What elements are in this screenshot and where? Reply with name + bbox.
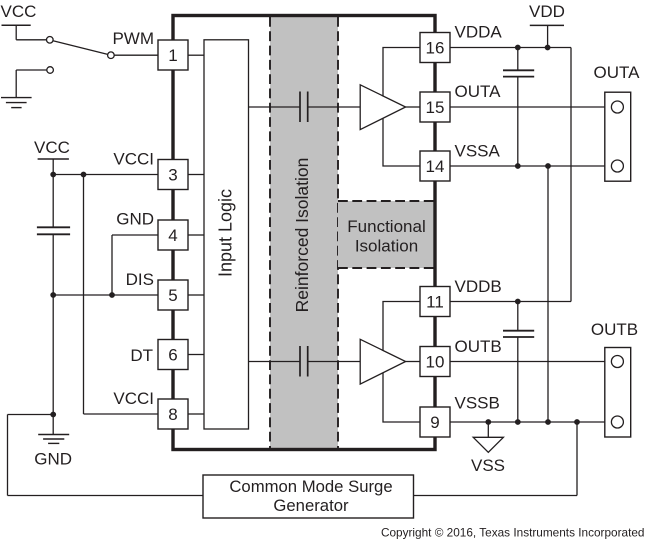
junction VCCI branch — [81, 172, 87, 178]
wire VSSA to VSSB vertical tie — [547, 166, 549, 422]
wire VSSB to surge generator — [414, 422, 578, 496]
switch S1 upper contact — [47, 37, 54, 44]
ground (switch) — [1, 98, 32, 108]
wire VCCI branch to pin 8 — [84, 413, 159, 415]
wire VDDB to capacitor C3 — [517, 302, 519, 331]
connector OUTA — [605, 92, 631, 181]
wire DIS net to pin 5 — [53, 294, 158, 296]
ground VSS symbol — [473, 437, 503, 452]
junction C3 / VDDB — [515, 299, 521, 305]
svg-text:8: 8 — [168, 405, 177, 424]
capacitor C3 (VDDB bypass) — [503, 331, 534, 337]
wire C2 bottom to VSSA net — [517, 77, 519, 166]
VCC supply bar (switch side) — [2, 25, 31, 40]
functional isolation region — [338, 201, 435, 268]
pin 11 — [420, 287, 450, 317]
wire pin 4 stub to input logic — [188, 234, 204, 236]
svg-text:VSS: VSS — [471, 456, 505, 475]
svg-text:Functional: Functional — [347, 217, 425, 236]
wire VDDA to capacitor C2 — [517, 48, 519, 71]
svg-text:VDDA: VDDA — [455, 23, 503, 42]
svg-text:Isolation: Isolation — [355, 237, 418, 256]
wire C1 bottom to GND rail — [52, 234, 54, 295]
capacitor C2 (VDDA bypass) — [503, 70, 534, 76]
wire driver A output to pin 15 — [406, 106, 420, 108]
junction pin4 GND / DIS — [109, 292, 115, 298]
wire channel A to isolation capacitor — [249, 106, 301, 108]
svg-text:Common Mode Surge: Common Mode Surge — [229, 477, 392, 496]
ground GND (rail) — [38, 435, 69, 444]
wire channel B to isolation capacitor — [249, 361, 301, 363]
wire switch lower contact to ground — [16, 70, 47, 98]
svg-text:VCC: VCC — [1, 2, 37, 21]
junction VSSB / surge branch — [574, 419, 580, 425]
svg-text:VSSA: VSSA — [455, 142, 501, 161]
svg-text:DIS: DIS — [126, 270, 154, 289]
svg-text:OUTB: OUTB — [591, 320, 638, 339]
svg-text:Reinforced Isolation: Reinforced Isolation — [292, 158, 312, 313]
switch S1 pole contact — [108, 52, 115, 59]
svg-text:Generator: Generator — [273, 496, 349, 515]
driver B buffer — [360, 339, 405, 384]
wire GND net to surge generator — [8, 415, 204, 496]
wire VCC bar to switch upper contact — [16, 39, 46, 41]
wire pin 1 stub to input logic — [188, 54, 204, 56]
junction C3 / VSSB — [515, 419, 521, 425]
switch S1 blade — [53, 41, 108, 55]
wire driver B output to pin 10 — [406, 361, 420, 363]
svg-text:VDD: VDD — [529, 2, 565, 21]
wire VSSA net pin 14 to connector — [450, 165, 612, 167]
connector OUTB — [605, 348, 631, 438]
svg-text:4: 4 — [168, 226, 177, 245]
wire VCCI branch rail down — [83, 175, 85, 415]
junction GND rail / surge branch — [50, 412, 56, 418]
label functional isolation — [347, 217, 425, 256]
junction GND rail / DIS — [50, 292, 56, 298]
svg-text:VCCI: VCCI — [113, 150, 154, 169]
input logic block — [204, 40, 249, 429]
wire pin 3 stub to input logic — [188, 174, 204, 176]
wire VDDA to VDDB vertical tie — [570, 48, 572, 302]
capacitor isolation B — [300, 346, 308, 377]
svg-text:3: 3 — [168, 166, 177, 185]
common mode surge generator box — [203, 475, 414, 518]
wire VCCI net to pin 3 — [53, 174, 158, 176]
svg-text:6: 6 — [168, 346, 177, 365]
svg-text:VCC: VCC — [34, 138, 70, 157]
wire VSS stub — [487, 422, 489, 437]
VCC supply bar (rail side) — [38, 159, 69, 175]
wire VSSB net pin 9 to connector — [450, 421, 612, 423]
svg-text:Copyright © 2016, Texas Instru: Copyright © 2016, Texas Instruments Inco… — [381, 525, 645, 539]
svg-text:GND: GND — [34, 449, 72, 468]
junction VCC rail / VCCI — [50, 172, 56, 178]
junction VSS / VSSB — [485, 419, 491, 425]
pin 9 — [420, 407, 450, 437]
switch S1 lower contact — [47, 67, 54, 74]
wire PWM net: switch pole to pin 1 — [114, 54, 158, 56]
wire isolation capacitor B to driver B — [308, 361, 360, 363]
svg-text:10: 10 — [426, 353, 445, 372]
svg-text:VCCI: VCCI — [113, 389, 154, 408]
pin 5 — [158, 280, 188, 310]
svg-text:Input Logic: Input Logic — [216, 189, 236, 277]
wire isolation capacitor A to driver A — [308, 106, 360, 108]
pin 10 — [420, 347, 450, 377]
wire pin 8 stub to input logic — [188, 413, 204, 415]
capacitor isolation A — [300, 92, 308, 123]
svg-text:5: 5 — [168, 286, 177, 305]
pin 3 — [158, 160, 188, 190]
svg-text:1: 1 — [168, 46, 177, 65]
wire GND net pin 4 L-drop — [112, 235, 158, 295]
svg-text:VDDB: VDDB — [455, 277, 502, 296]
svg-text:DT: DT — [130, 346, 153, 365]
driver A buffer — [360, 85, 405, 130]
wire C3 bottom to VSSB net — [517, 337, 519, 422]
svg-text:VSSB: VSSB — [455, 394, 500, 413]
svg-text:GND: GND — [116, 210, 154, 229]
wire OUTB net pin 10 to connector — [450, 361, 612, 363]
wire pin 5 stub to input logic — [188, 294, 204, 296]
VDD supply bar — [530, 25, 564, 47]
svg-text:9: 9 — [430, 413, 439, 432]
wire driver B supply bracket pin11 to pin9 — [383, 302, 420, 423]
junction VSSA tie — [545, 163, 551, 169]
wire VDDA net pin 16 to right — [450, 47, 571, 49]
svg-text:15: 15 — [426, 98, 445, 117]
pin 16 — [420, 33, 450, 63]
wire OUTA net pin 15 to connector — [450, 106, 612, 108]
svg-text:OUTB: OUTB — [455, 337, 502, 356]
junction VSSB tie — [545, 419, 551, 425]
pin 4 — [158, 220, 188, 250]
svg-text:OUTA: OUTA — [594, 63, 641, 82]
junction VDD / VDDA — [545, 45, 551, 51]
svg-text:OUTA: OUTA — [455, 82, 502, 101]
svg-text:11: 11 — [426, 293, 444, 312]
wire VDDB net pin 11 to right — [450, 301, 571, 303]
wire pin 6 stub to input logic — [188, 354, 204, 356]
junction C2 / VSSA — [515, 163, 521, 169]
pin 14 — [420, 151, 450, 181]
IC U1 outline — [173, 16, 435, 450]
reinforced isolation barrier (gray band) — [270, 17, 338, 450]
wire driver A supply bracket pin16 to pin14 — [383, 48, 420, 167]
junction C2 / VDDA — [515, 45, 521, 51]
wire VCC rail down to capacitor C1 — [52, 175, 54, 228]
pin 8 — [158, 399, 188, 429]
wire GND rail down — [52, 295, 54, 435]
svg-text:PWM: PWM — [112, 29, 154, 48]
capacitor C1 (VCC bypass) — [37, 227, 70, 234]
svg-text:14: 14 — [426, 157, 445, 176]
pin 15 — [420, 92, 450, 122]
pin 6 — [158, 340, 188, 370]
pin 1 — [158, 40, 188, 70]
svg-text:16: 16 — [426, 39, 445, 58]
